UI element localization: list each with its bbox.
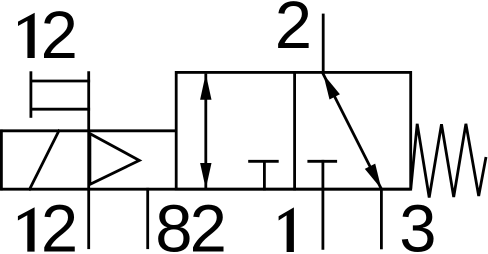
port 2 line (322, 15, 325, 72)
svg-text:8: 8 (155, 192, 192, 254)
port 1 line (321, 161, 324, 248)
svg-text:3: 3 (399, 192, 436, 254)
flow arrow 12-82 head down (200, 163, 211, 189)
port 3 line (380, 189, 383, 248)
flow arrow 2-3 head up (323, 74, 340, 100)
svg-text:2: 2 (41, 0, 78, 73)
port 82 line (146, 189, 149, 248)
flow arrow 2-3 stem (323, 74, 381, 189)
label 12 bottom : digit 1 (18, 207, 35, 251)
svg-text:2: 2 (275, 0, 312, 63)
label 1 (279, 207, 294, 252)
manual override top (31, 80, 89, 83)
flow arrow 12-82 head up (200, 74, 211, 100)
solenoid diagonal (30, 131, 59, 189)
pilot group divider (87, 73, 90, 190)
valve position divider (293, 72, 296, 189)
wire bottom rail (0, 188, 410, 191)
label 12 top : digit 1 (18, 13, 35, 58)
flow arrow 2-3 head down (365, 164, 382, 189)
pilot group left edge (0, 131, 3, 189)
blocked port T left (250, 161, 278, 189)
manual override bar (29, 73, 32, 117)
manual override bottom (31, 108, 89, 111)
flow arrow 12-82 stem (204, 75, 207, 188)
pilot triangle (90, 134, 139, 185)
spring return (411, 124, 486, 198)
pilot group top line (0, 129, 176, 132)
svg-text:2: 2 (41, 192, 78, 254)
svg-text:2: 2 (190, 192, 227, 254)
blocked port T right (309, 160, 336, 163)
valve body (176, 72, 411, 189)
port 12 line (87, 189, 90, 248)
